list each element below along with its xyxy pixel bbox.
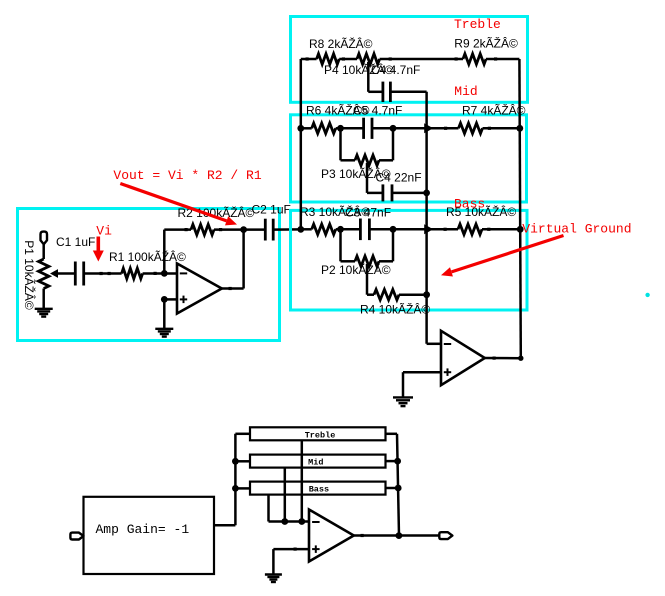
svg-text:R5 10kÃŽÂ©: R5 10kÃŽÂ© xyxy=(446,204,516,219)
svg-text:C5 4.7nF: C5 4.7nF xyxy=(353,104,402,118)
resistor R4 xyxy=(374,290,399,300)
pin tick xyxy=(154,272,157,275)
wire left bus xyxy=(300,59,303,229)
wire C3 to node xyxy=(369,228,393,231)
wire vg bus to U2 xyxy=(427,343,441,346)
wire U2 output xyxy=(485,357,521,360)
P3 loop left xyxy=(339,128,342,160)
wire U1 output xyxy=(222,287,244,290)
wire U3 + input xyxy=(273,548,309,551)
op-amp U2 xyxy=(441,331,485,385)
node bass stub xyxy=(232,485,239,492)
wire arrow to R5 xyxy=(431,228,458,231)
svg-text:C4 4.7nF: C4 4.7nF xyxy=(371,63,420,77)
svg-text:C1 1uF: C1 1uF xyxy=(56,235,95,249)
wire C1 to R1 xyxy=(84,272,122,275)
wire U2 gnd xyxy=(402,372,405,397)
svg-text:P1 10kÃŽÂ©: P1 10kÃŽÂ© xyxy=(22,240,37,310)
capacitor C1 xyxy=(74,262,77,286)
wire bass stub xyxy=(235,487,250,490)
node U1 out/feedback xyxy=(240,226,247,233)
P2 wiper wire xyxy=(366,264,369,295)
potentiometer P2 xyxy=(355,256,379,266)
svg-text:Treble: Treble xyxy=(454,17,501,32)
node inv input U1 xyxy=(161,270,168,277)
svg-text:P2 10kÃŽÂ©: P2 10kÃŽÂ© xyxy=(321,262,391,277)
wiper arrow mid xyxy=(424,123,433,133)
pin tick xyxy=(219,228,222,231)
wire C2 to bass box xyxy=(273,228,301,231)
svg-text:Treble: Treble xyxy=(305,430,336,440)
wire treble drop xyxy=(301,440,304,521)
input stage boundary box xyxy=(18,209,280,341)
U2 plus xyxy=(444,371,451,373)
terminal input tag xyxy=(70,533,83,540)
terminal IN (P1 top) xyxy=(41,232,48,245)
wire bass to wiper arrow xyxy=(393,228,425,231)
wire to R2 xyxy=(164,228,191,231)
treble block xyxy=(250,427,386,440)
svg-text:R7 4kÃŽÂ©: R7 4kÃŽÂ© xyxy=(462,102,526,117)
node vg mid xyxy=(423,190,430,197)
svg-text:R9 2kÃŽÂ©: R9 2kÃŽÂ© xyxy=(454,36,518,51)
wire mid drop xyxy=(284,468,287,522)
svg-text:C2 1uF: C2 1uF xyxy=(252,203,291,217)
annotation Vout arrow xyxy=(120,184,226,221)
wire node to C2 xyxy=(244,228,266,231)
svg-text:Amp Gain= -1: Amp Gain= -1 xyxy=(96,522,190,537)
wire output up to feedback xyxy=(242,230,245,289)
potentiometer P3 xyxy=(355,155,379,165)
node mid right stub xyxy=(394,458,401,465)
treble boundary box xyxy=(291,17,528,103)
wire treble left xyxy=(301,58,317,61)
node U2 out xyxy=(518,356,523,361)
wire to treble blk xyxy=(235,433,250,436)
wire U1 + input xyxy=(164,298,177,301)
pin tick xyxy=(342,57,345,60)
pin tick xyxy=(185,228,188,231)
wire 22nF to vg bus xyxy=(392,192,427,195)
amp block xyxy=(84,497,215,574)
wire C4 to vg bus xyxy=(390,91,426,94)
potentiometer P4 xyxy=(357,54,380,64)
pin tick xyxy=(306,57,309,60)
wire R1 to U1 inv xyxy=(143,272,177,275)
potentiometer P1 xyxy=(39,259,49,289)
capacitor C5 xyxy=(362,118,365,139)
P3 loop right xyxy=(379,159,393,162)
op-amp U3 xyxy=(309,510,354,562)
node mid a xyxy=(337,125,344,132)
svg-text:R8 2kÃŽÂ©: R8 2kÃŽÂ© xyxy=(309,36,373,51)
wire P1 bottom xyxy=(42,289,45,309)
svg-text:C4 22nF: C4 22nF xyxy=(376,171,422,185)
wire amp out xyxy=(214,524,235,527)
wire R2 to node xyxy=(214,228,244,231)
wire R9 right xyxy=(486,58,519,61)
pin tick xyxy=(444,228,447,231)
wire to C3 xyxy=(341,228,361,231)
wire treble right stub xyxy=(386,433,398,436)
wire R4 to vg bus xyxy=(399,293,427,296)
wire mid to wiper arrow xyxy=(393,127,425,130)
wire U2 + input xyxy=(403,371,441,374)
wire C5 to node xyxy=(372,127,393,130)
svg-text:R1 100kÃŽÂ©: R1 100kÃŽÂ© xyxy=(109,249,186,264)
wiper arrow bass xyxy=(424,224,433,234)
wire mid stub xyxy=(235,460,250,463)
pin tick xyxy=(389,57,392,60)
op-amp U1 xyxy=(177,264,222,314)
wire P4 to R9 xyxy=(380,58,463,61)
annotation Vi arrow xyxy=(97,237,101,252)
wire bass right stub xyxy=(386,487,399,490)
resistor R8 xyxy=(317,54,340,64)
U3 minus xyxy=(312,521,320,523)
wire bass drop xyxy=(267,495,270,522)
svg-text:Mid: Mid xyxy=(454,84,477,99)
resistor R5 xyxy=(458,224,482,234)
node mid b xyxy=(390,125,397,132)
terminal output tag xyxy=(439,532,452,539)
wire right bus xyxy=(519,59,520,358)
capacitor C2 xyxy=(264,219,267,241)
mid boundary box xyxy=(291,115,527,202)
node bass a xyxy=(337,226,344,233)
P1 wiper arrow xyxy=(50,269,58,278)
wire P1 top xyxy=(42,244,45,259)
ground P1 xyxy=(35,308,53,310)
wire feedback up xyxy=(163,230,166,274)
wire R7 right xyxy=(483,127,520,130)
resistor R2 xyxy=(191,224,214,234)
node bass b xyxy=(390,226,397,233)
node mid left xyxy=(297,125,304,132)
svg-text:Mid: Mid xyxy=(308,458,323,468)
wire riser xyxy=(234,434,237,526)
wire virtual ground bus xyxy=(425,92,428,344)
wire R6 to node xyxy=(336,127,341,130)
stray cyan dot xyxy=(645,293,649,297)
wire bass left xyxy=(301,228,312,231)
bass block xyxy=(250,482,386,495)
svg-text:Vi: Vi xyxy=(96,224,112,239)
wire inv bus xyxy=(269,520,310,523)
ground U1 xyxy=(155,328,173,330)
node drop treble xyxy=(298,518,305,525)
wire R8 to P4 xyxy=(339,58,357,61)
annotation VG arrow xyxy=(452,236,564,272)
node drop mid xyxy=(281,518,288,525)
wire U3 out xyxy=(354,534,439,537)
resistor R9 xyxy=(463,54,486,64)
U1 plus xyxy=(180,298,187,300)
ground U2 xyxy=(393,396,413,398)
node mid stub xyxy=(232,458,239,465)
svg-text:Vout = Vi * R2 / R1: Vout = Vi * R2 / R1 xyxy=(113,168,261,183)
resistor R6 xyxy=(312,123,336,133)
ground U3 xyxy=(265,573,282,575)
capacitor C4 mid 22nF xyxy=(381,184,384,201)
bass boundary box xyxy=(291,210,528,310)
capacitor C4 treble xyxy=(381,82,384,102)
node vg bass xyxy=(423,291,430,298)
P2 loop left xyxy=(339,229,342,261)
P3 wiper wire xyxy=(366,163,369,193)
resistor R1 xyxy=(122,268,143,278)
wire R5 right xyxy=(482,228,520,231)
wire R3 to node xyxy=(336,228,341,231)
wire mid left xyxy=(301,127,312,130)
U3 plus xyxy=(312,548,320,550)
wire to ground U1 xyxy=(163,299,166,328)
node bass right stub xyxy=(395,485,402,492)
node mid right xyxy=(516,125,523,132)
U2 minus xyxy=(444,343,451,345)
node bass right xyxy=(517,226,524,233)
svg-text:C3 47nF: C3 47nF xyxy=(345,206,391,220)
node U1 + gnd xyxy=(161,296,168,303)
U1 minus xyxy=(180,272,187,274)
wire to C5 xyxy=(341,127,364,130)
resistor R7 xyxy=(459,123,483,133)
node out bus xyxy=(396,532,403,539)
capacitor C3 xyxy=(359,219,362,241)
svg-text:R4 10kÃŽÂ©: R4 10kÃŽÂ© xyxy=(360,302,430,317)
resistor R3 xyxy=(312,224,336,234)
P2 loop right xyxy=(379,260,393,263)
wire mid right stub xyxy=(386,460,398,463)
pin tick xyxy=(444,127,447,130)
svg-text:Bass: Bass xyxy=(309,485,329,495)
mid block xyxy=(250,455,386,468)
svg-text:Virtual Ground: Virtual Ground xyxy=(522,221,631,236)
wire right blk bus xyxy=(397,434,399,536)
wire U3 gnd xyxy=(272,549,275,574)
pin tick U2 out xyxy=(493,357,496,360)
P4 wiper wire xyxy=(367,62,370,92)
node bass left xyxy=(297,226,304,233)
pin tick xyxy=(100,272,103,275)
wire arrow to R7 xyxy=(431,127,459,130)
